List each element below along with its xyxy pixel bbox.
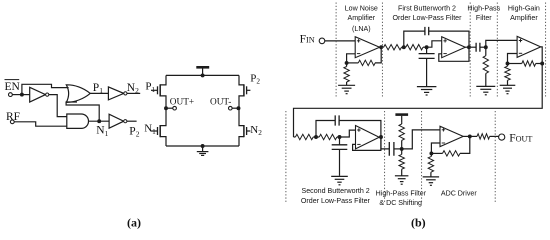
ground GND8 [423,177,439,185]
junction OUT- node [237,106,241,110]
wire OR output to inverter U2 [90,92,108,94]
node N2 signal label [127,82,139,95]
label Second Butterworth 2 Order Low-Pass Filter [301,187,371,205]
node N2 gate label [250,124,262,137]
resistor R1-BW1 [384,45,406,50]
junction BW2 output [379,135,383,139]
label Low Noise Amplifier [345,4,378,33]
wire BW2 to op-amp [340,130,356,137]
and-gate G2 [67,114,89,128]
ground GND4 [476,86,495,94]
terminal OUT- [229,106,233,110]
wire ground rail [166,145,239,147]
caption (b) [411,216,426,230]
terminal OUT+ [173,106,177,110]
op-amp U6 HGA [517,36,541,57]
wire FIN to LNA [325,40,355,42]
svg-text:First Butterworth 2: First Butterworth 2 [398,4,456,12]
svg-text:Second Butterworth 2: Second Butterworth 2 [301,187,369,195]
ground GND3 [417,87,437,95]
resistor R-out [477,134,499,139]
wire OUT+ stub [166,107,173,109]
wire LNA output [380,46,384,48]
svg-text:ADC Driver: ADC Driver [441,189,478,197]
wire U6 inverting input [508,54,518,64]
svg-text:FIN: FIN [300,33,315,45]
node FOUT label [509,133,532,145]
terminal RF [10,120,14,124]
resistor R1-BW2 [294,134,317,139]
power VDD symbol [196,67,209,77]
junction LNA output [379,45,383,49]
wire U5 feedback loop [439,47,469,61]
wire HPF1 to HGA [486,40,517,47]
separator dashed 7 [384,111,386,204]
node EN-bar input label [5,80,21,93]
op-amp U4 LNA [355,37,379,58]
label ADC Driver [441,189,478,197]
transistor N1 [151,108,166,146]
wire AND output [89,120,110,122]
wire BW2 output drop [381,137,389,149]
wire U7 feedback loop [353,137,381,150]
separator dashed 4 [496,3,498,97]
resistor R-ADC-gnd [428,153,433,176]
terminal FIN [319,38,325,44]
ground GND6 [331,176,348,184]
or-gate G1 [66,85,90,103]
junction BW1 cap node [425,45,429,49]
junction BW1 output [467,45,471,49]
resistor R-HPF1-gnd [483,47,488,86]
wire DC shift to ADC driver [402,130,440,149]
ground GND7 [395,176,409,184]
inverter U3 (N1 to P2) [109,114,127,128]
svg-text:Order Low-Pass Filter: Order Low-Pass Filter [301,197,371,205]
capacitor C-BW2-gnd [332,137,348,176]
node N1 signal label [96,125,108,138]
wire interstage rail [294,64,543,138]
resistor R-DC-down [399,149,404,176]
wire U3 output [127,120,137,122]
node FIN label [300,33,315,45]
resistor R-DC-up [399,122,404,148]
capacitor C-HPF2 [389,142,401,156]
svg-text:Order Low-Pass Filter: Order Low-Pass Filter [393,14,463,22]
wire U2 output [127,92,140,94]
wire RF to AND gate bottom input [14,122,67,126]
junction HGA feedback node [506,62,510,66]
op-amp U5 BW1 [442,37,466,58]
wire BW1 to op-amp [427,41,442,47]
svg-text:(LNA): (LNA) [352,25,371,33]
transistor N2 [239,108,250,146]
junction DC shift node [400,147,404,151]
op-amp U7 BW2 [356,126,380,149]
node P1 signal label [93,82,103,95]
wire OUT- stub [232,107,238,109]
separator dashed 3 [469,3,471,97]
svg-text:OUT-: OUT- [210,97,231,107]
separator dashed 6 [285,111,287,204]
node RF input label [6,111,20,123]
svg-text:OUT+: OUT+ [170,97,194,107]
svg-text:Low Noise: Low Noise [345,4,378,12]
op-amp U8 ADC driver [440,126,463,146]
transistor P1 [151,75,166,108]
resistor R-LNA-gnd [344,63,349,85]
separator dashed 9 [494,111,496,204]
junction LNA feedback node [345,61,349,65]
svg-text:Amplifier: Amplifier [348,14,376,22]
junction BW2 cap node [338,135,342,139]
wire U1 input [22,94,30,96]
wire EN to OR gate top input [22,84,69,94]
resistor R2-BW2 [316,134,340,139]
label High-Gain Amplifier [508,4,540,22]
node OUT+ label [170,97,194,107]
wire ADC output [463,135,477,137]
resistor R-HGA-gnd [505,64,510,86]
svg-text:High-Pass: High-Pass [467,4,500,12]
ground GND2 [338,85,355,93]
svg-text:Filter: Filter [476,14,492,22]
svg-text:Amplifier: Amplifier [510,14,538,22]
node N1 gate label [144,123,156,136]
label High-Pass Filter [467,4,500,22]
wire EN terminal to junction [12,94,22,96]
terminal FOUT [499,134,505,140]
ground GND5 [500,85,516,93]
junction EN node [20,93,24,97]
svg-text:(a): (a) [127,215,141,229]
junction OUT+ node [164,106,168,110]
wire N1 feedback to OR gate bottom input [66,102,99,121]
junction N1 node [97,119,101,123]
resistor R-LNA-fb [347,47,382,65]
junction HPF1 node [484,45,488,49]
wire VDD rail [166,74,239,76]
wire BW2 output [379,136,381,138]
svg-text:EN: EN [5,81,21,93]
label High-Pass Filter DC Shifting [376,189,427,207]
capacitor C-BW2-fb [316,115,381,137]
inverter U2 (P1 to N2) [108,87,127,100]
label First Butterworth 2 Order Low-Pass Filter [393,4,463,22]
separator dashed 2 [381,3,383,97]
wire U8 inverting input [431,143,440,153]
svg-text:High-Gain: High-Gain [508,4,540,12]
separator dashed 5 [545,3,547,97]
svg-text:(b): (b) [411,216,426,230]
capacitor C-HPF1 [476,43,486,52]
junction ADC output [468,134,472,138]
wire BW1 output [465,46,476,48]
resistor R-HGA-fb [508,61,543,66]
terminal EN [9,93,13,97]
resistor R-ADC-fb [431,136,469,156]
capacitor C-BW1-fb [404,27,469,47]
svg-text:High-Pass Filter: High-Pass Filter [376,189,427,197]
wire HGA output [541,47,543,64]
svg-text:& DC Shifting: & DC Shifting [379,199,422,207]
resistor R2-BW1 [406,45,427,50]
power VDD2 symbol [395,115,408,123]
wire U1 output to AND gate top input [49,95,67,117]
node P2 signal label [129,125,139,138]
junction BW2 mid node [314,135,318,139]
node P2 gate label [250,72,260,85]
separator dashed 8 [421,111,423,204]
junction ADC feedback node [429,151,433,155]
svg-text:FOUT: FOUT [509,133,532,145]
separator dashed 1 [335,3,337,97]
wire U4 inverting input [347,54,356,63]
capacitor C-BW1-gnd [419,47,435,86]
junction BW1 mid node [402,45,406,49]
transistor P2 [239,75,250,108]
caption (a) [127,215,141,229]
ground GND1 [197,144,209,155]
inverter U1 (EN) [30,87,49,102]
node P1 gate label [145,81,155,94]
node OUT- label [210,97,231,107]
junction HGA output corner [540,62,544,66]
